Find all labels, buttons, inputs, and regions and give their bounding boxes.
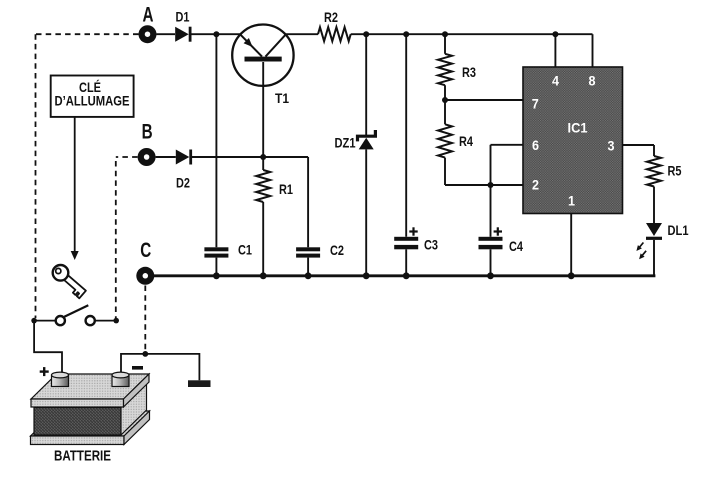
svg-text:C3: C3	[424, 237, 438, 253]
svg-text:R5: R5	[668, 163, 682, 179]
svg-text:BATTERIE: BATTERIE	[54, 449, 111, 465]
svg-text:B: B	[142, 121, 153, 144]
svg-text:DL1: DL1	[668, 222, 689, 238]
svg-text:C: C	[140, 239, 151, 262]
svg-text:C2: C2	[330, 242, 344, 258]
svg-text:DZ1: DZ1	[335, 134, 356, 150]
svg-text:1: 1	[568, 193, 575, 209]
svg-text:4: 4	[552, 73, 559, 89]
svg-text:A: A	[143, 4, 154, 27]
svg-text:R4: R4	[459, 133, 473, 149]
svg-text:R2: R2	[324, 9, 338, 25]
svg-text:3: 3	[608, 138, 615, 154]
svg-text:R1: R1	[279, 181, 293, 197]
svg-text:C1: C1	[238, 242, 252, 258]
svg-text:D2: D2	[176, 175, 190, 191]
svg-text:D’ALLUMAGE: D’ALLUMAGE	[55, 94, 130, 109]
svg-text:R3: R3	[462, 64, 476, 80]
svg-text:T1: T1	[275, 90, 289, 106]
svg-text:8: 8	[589, 73, 596, 89]
svg-text:IC1: IC1	[568, 120, 588, 136]
svg-text:6: 6	[532, 137, 539, 153]
svg-text:C4: C4	[509, 238, 523, 254]
svg-text:7: 7	[532, 96, 539, 112]
svg-text:2: 2	[532, 177, 539, 193]
svg-text:D1: D1	[176, 9, 190, 25]
